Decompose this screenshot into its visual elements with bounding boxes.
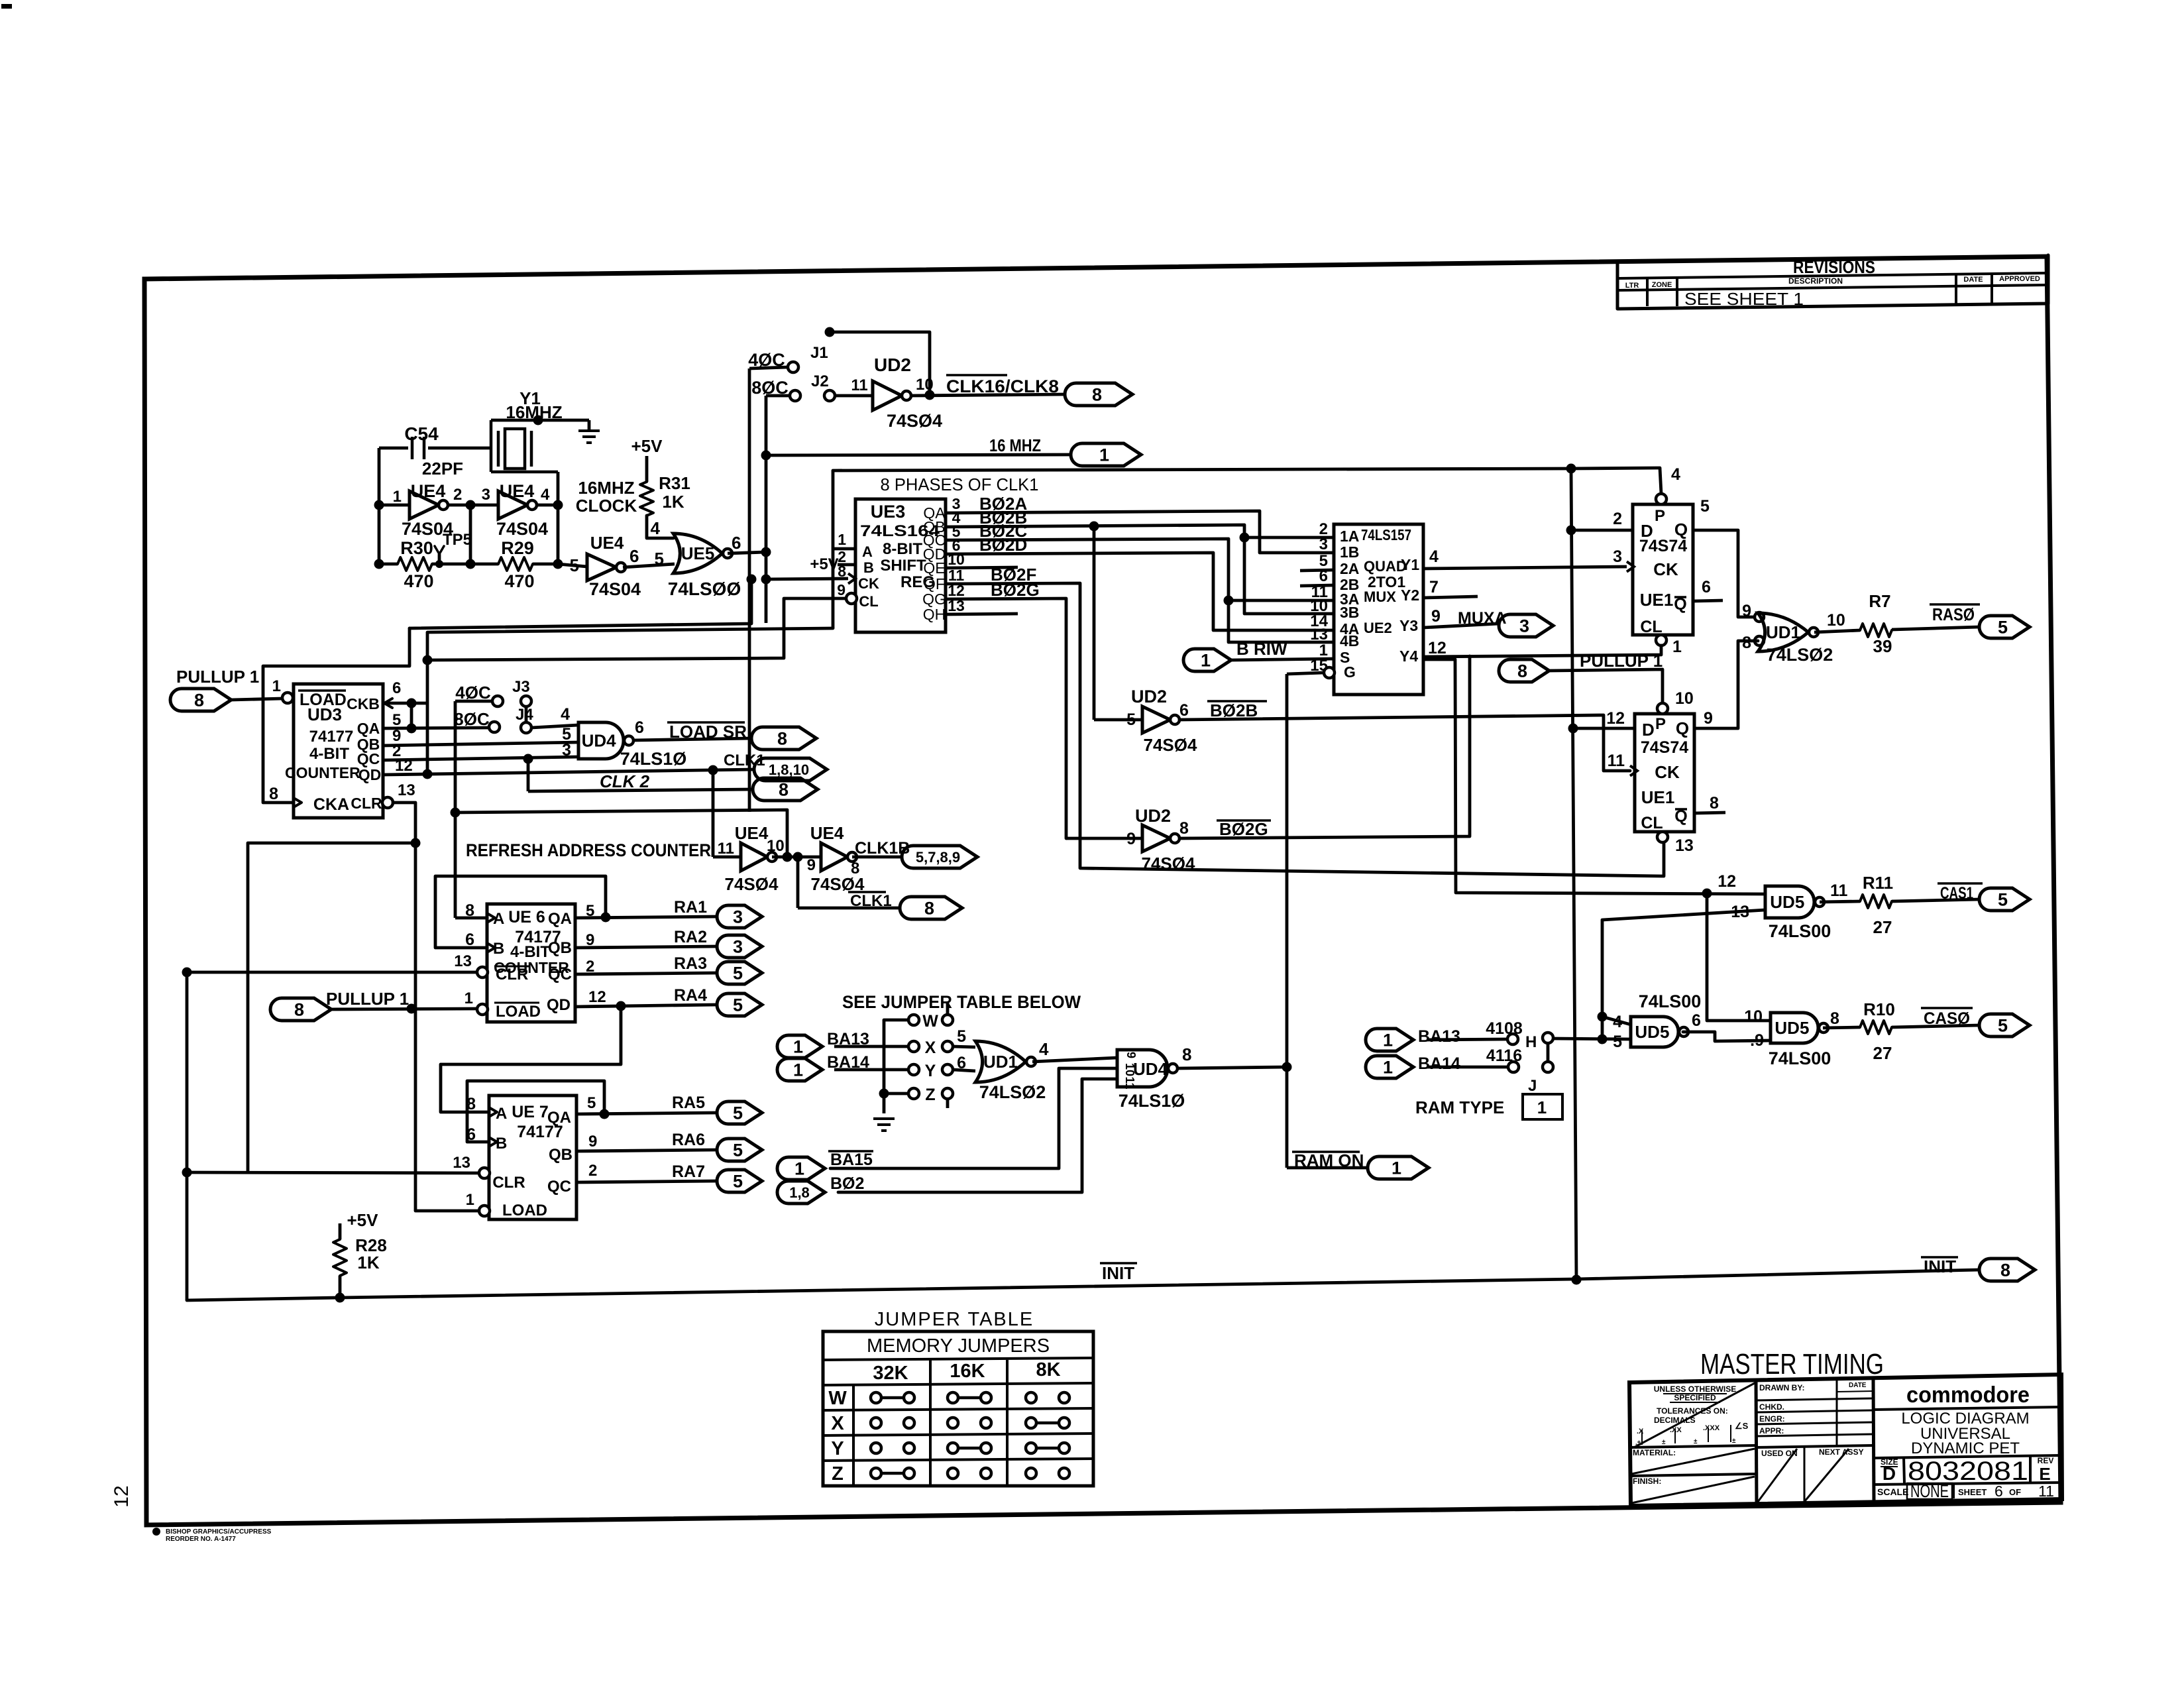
svg-text:PULLUP 1: PULLUP 1 [326,989,409,1009]
svg-text:B: B [863,559,874,576]
wire UE7 CLR input [187,1172,479,1173]
svg-text:FINISH:: FINISH: [1633,1477,1661,1486]
svg-text:P: P [1655,715,1666,733]
svg-text:SEE SHEET 1: SEE SHEET 1 [1684,289,1804,309]
svg-text:UE1: UE1 [1641,787,1675,807]
inverter UD2 pins 11-10 74S04 [824,355,1065,431]
svg-text:6: 6 [1994,1483,2003,1500]
svg-text:39: 39 [1873,636,1892,656]
svg-text:2: 2 [1613,510,1622,528]
svg-text:CLR: CLR [492,1174,525,1192]
svg-text:Z: Z [925,1086,935,1104]
svg-text:1: 1 [393,488,402,506]
svg-text:RA5: RA5 [672,1094,705,1112]
svg-text:1: 1 [1672,638,1682,656]
wire UD3 QD CLK1 net [383,769,754,775]
svg-text:J3: J3 [512,678,530,696]
flag BA13 input 1 right [1366,1027,1507,1051]
svg-text:74SØ4: 74SØ4 [887,411,942,431]
svg-text:R29: R29 [501,538,534,558]
wire UE7 LOAD input [415,1209,479,1213]
net RA7 flag 5 [576,1181,717,1182]
svg-text:8K: 8K [1036,1359,1060,1380]
svg-text:10: 10 [1675,689,1694,708]
svg-text:3: 3 [733,937,743,957]
svg-text:D: D [1642,720,1655,740]
wire CLR UD3 route [393,803,415,843]
svg-text:5: 5 [733,964,743,983]
svg-text:QC: QC [547,1178,571,1196]
wire B02B branch down [1093,526,1096,720]
svg-text:J4: J4 [516,706,533,724]
svg-text:D: D [1883,1463,1896,1484]
svg-text:SHEET: SHEET [1958,1487,1987,1497]
svg-text:RA6: RA6 [672,1131,705,1149]
svg-text:P: P [1655,507,1665,525]
svg-text:9: 9 [807,856,816,874]
svg-text:.±: .± [1635,1439,1641,1447]
svg-text:R11: R11 [1863,873,1893,893]
wire Y4 to UD5 pin 12 [1423,639,1765,899]
svg-text:BISHOP GRAPHICS/ACCUPRESS: BISHOP GRAPHICS/ACCUPRESS [166,1528,272,1536]
svg-text:APPROVED: APPROVED [1999,275,2040,283]
svg-text:4B: 4B [1340,632,1359,649]
wire UE6 carry QA to B [601,913,611,923]
svg-text:Y: Y [831,1438,844,1459]
svg-text:470: 470 [504,571,534,591]
svg-text:CASØ: CASØ [1924,1009,1970,1028]
svg-text:1: 1 [1392,1158,1401,1178]
svg-text:8: 8 [1830,1009,1839,1028]
svg-text:LOAD: LOAD [496,1003,541,1021]
svg-text:UE4: UE4 [810,823,844,843]
svg-text:J2: J2 [811,372,829,390]
svg-text:74S04: 74S04 [589,579,641,599]
svg-text:74LSØ2: 74LSØ2 [979,1082,1046,1102]
svg-text:Y2: Y2 [1401,587,1419,604]
jumper J 4116 [1486,1046,1553,1095]
net RA6 flag 5 [576,1150,717,1151]
svg-text:5: 5 [1998,1016,2008,1036]
wire UE1a Q to UD1 pin 9 [1693,530,1758,617]
svg-text:UD5: UD5 [1774,1018,1809,1038]
wire UE6 CLR input [187,971,477,974]
svg-text:8 PHASES OF CLK1: 8 PHASES OF CLK1 [881,475,1039,494]
wire UE1a CL rail [1425,646,1661,657]
svg-text:5: 5 [392,711,401,729]
wire CKA 16MHZ net upper [409,579,751,628]
svg-text:74LS00: 74LS00 [1639,991,1702,1011]
svg-text:BA15: BA15 [830,1151,873,1169]
svg-text:ZONE: ZONE [1652,281,1672,289]
nand gate UD5 pins 10,9,8 74LS00 [1744,1007,1839,1068]
svg-text:1A: 1A [1340,528,1359,545]
svg-text:NONE: NONE [1910,1481,1949,1501]
svg-text:REFRESH ADDRESS COUNTER: REFRESH ADDRESS COUNTER [466,840,711,860]
svg-text:10: 10 [1744,1007,1763,1026]
svg-text:RASØ: RASØ [1932,604,1975,624]
svg-text:3: 3 [733,907,743,927]
svg-text:11: 11 [2038,1483,2054,1500]
svg-text:QD: QD [547,996,571,1014]
stub QE [946,567,1018,568]
svg-text:SPECIFIED: SPECIFIED [1674,1393,1716,1402]
svg-text:PULLUP 1: PULLUP 1 [176,667,259,687]
svg-text:TP5: TP5 [443,531,472,549]
flag BA14 input 1 [777,1053,908,1081]
svg-text:74LS00: 74LS00 [1769,921,1831,941]
svg-text:8: 8 [924,899,934,919]
net CLK1-bar flag 8 [798,857,962,919]
counter UD3 74177 4-BIT [269,677,415,818]
inverter UD2 pins 5-6 74S04 [1094,687,1197,755]
svg-text:MUX: MUX [1364,589,1396,605]
svg-text:74S04: 74S04 [496,519,548,539]
svg-text:74SØ4: 74SØ4 [1142,854,1195,873]
svg-text:J1: J1 [810,344,828,362]
svg-text:6: 6 [1702,578,1711,596]
svg-text:8: 8 [294,1000,304,1020]
svg-text:74LS157: 74LS157 [1361,526,1411,543]
svg-text:5: 5 [1998,890,2008,910]
svg-text:11: 11 [1830,881,1848,900]
svg-text:6: 6 [635,718,644,737]
net INIT wire [187,1270,1979,1300]
svg-text:CLR: CLR [496,966,528,983]
svg-text:2: 2 [453,486,462,504]
svg-text:UE4: UE4 [735,823,769,843]
svg-text:1B: 1B [1340,543,1359,561]
nand gate UD4 pins 4,5,3 74LS10 [561,705,686,769]
net 16 MHZ flag 1 [761,435,1142,466]
svg-text:BØ2G: BØ2G [1219,819,1268,839]
svg-text:RA2: RA2 [674,928,707,946]
wire UD1 out to UD4 pin 9 [1032,1058,1117,1062]
wire UE3 CK input [761,575,771,585]
vertical 40C to UE6 A [454,701,457,918]
svg-text:LOAD SR: LOAD SR [669,722,747,742]
nor gate UD1 74LS02 left [975,1039,1049,1102]
svg-text:4: 4 [1039,1039,1049,1059]
svg-text:∠S: ∠S [1735,1421,1749,1431]
svg-text:74S74: 74S74 [1639,537,1687,555]
counter UE7 74177 [453,1094,597,1219]
flag PULLUP 1 input 8 right [1499,651,1663,703]
flag B02 input 1,8 [777,1079,1117,1204]
net CLK 2 flag 8 [528,771,818,801]
svg-text:QB: QB [548,939,572,957]
wire UE1a D input [1571,529,1633,532]
wire UD3 QA to jumper J4 [383,728,489,728]
svg-text:1: 1 [793,1037,803,1057]
net B02B-bar wire to UE1b CK [1179,701,1637,776]
inverter UE4 pins 9-8 74S04 [807,823,865,894]
svg-text:QH: QH [923,606,946,623]
svg-text:UD2: UD2 [1135,806,1171,826]
svg-text:UE1: UE1 [1640,590,1674,610]
svg-text:R30: R30 [400,538,433,558]
svg-text:13: 13 [1310,626,1328,644]
svg-text:12: 12 [1428,639,1447,657]
svg-text:22PF: 22PF [422,459,463,478]
svg-text:UD2: UD2 [1131,687,1167,706]
svg-text:INIT: INIT [1924,1257,1956,1276]
svg-text:Z: Z [832,1463,844,1485]
wire UE3 A input [833,547,855,551]
stub QH [946,614,1018,614]
resistor R11 27 [1820,873,1893,937]
svg-text:CLOCK: CLOCK [576,496,637,516]
net RA1 flag 3 [575,917,717,918]
svg-text:3: 3 [1519,616,1529,636]
svg-text:UD5: UD5 [1770,892,1804,912]
stub UE1b Qbar [1694,813,1725,813]
flag BA13 input 1 [777,1030,908,1058]
svg-text:CLK1: CLK1 [850,892,892,910]
svg-text:MASTER TIMING: MASTER TIMING [1700,1348,1884,1380]
wire UE6 A input [455,917,487,920]
svg-text:6: 6 [957,1054,966,1072]
jumper Z [884,1086,953,1108]
svg-text:RAM TYPE: RAM TYPE [1415,1097,1504,1117]
svg-text:6: 6 [629,546,639,566]
svg-text:8: 8 [1092,385,1102,405]
svg-text:REORDER NO. A-1477: REORDER NO. A-1477 [166,1536,236,1543]
svg-text:±: ± [1732,1437,1736,1445]
svg-text:12: 12 [111,1485,133,1507]
svg-text:CK: CK [858,575,879,592]
svg-text:9: 9 [1124,1052,1138,1058]
svg-text:H: H [1525,1033,1537,1051]
svg-text:REVISIONS: REVISIONS [1793,257,1875,277]
wire UD4 output to RAM ON net [1177,1067,1287,1068]
svg-text:1: 1 [1099,445,1109,465]
svg-text:MATERIAL:: MATERIAL: [1633,1448,1676,1457]
svg-text:74LS1Ø: 74LS1Ø [620,749,687,769]
wire UE6 QD cascade to UE7 A [616,1001,626,1011]
inverter UE4 pins 3-4 [482,481,550,539]
svg-text:8: 8 [1710,794,1719,813]
svg-text:8: 8 [1179,819,1189,838]
net INIT label mid [1100,1262,1137,1264]
svg-text:CLR: CLR [351,795,382,812]
svg-text:.X: .X [1637,1428,1644,1435]
svg-text:6: 6 [1179,701,1189,720]
flip-flop UE1 74S74 lower [1606,689,1719,855]
svg-text:1: 1 [464,989,473,1007]
wire UE7 carry QA to B [600,1109,610,1119]
svg-text:DYNAMIC PET: DYNAMIC PET [1911,1439,2020,1457]
svg-text:APPR:: APPR: [1759,1426,1784,1435]
svg-text:12: 12 [588,988,606,1006]
net label CLK16/CLK8 and flag 8 [946,375,1132,406]
crystal Y1 16MHZ [491,388,589,472]
svg-text:9: 9 [588,1133,597,1151]
svg-text:4: 4 [1429,547,1439,566]
svg-text:5: 5 [733,995,743,1015]
svg-text:LOAD: LOAD [502,1202,547,1219]
wire UD3 QC to UD4 pin3 and CLK2 [383,757,578,760]
svg-text:1,8: 1,8 [789,1184,810,1201]
svg-text:Y: Y [925,1062,936,1080]
svg-text:13: 13 [398,781,415,799]
nand gate UD5 pins 12,13,11 74LS00 [1718,872,1847,941]
wire UD5b pin4 [1602,1017,1631,1025]
wire UD3 CKB net [383,702,427,705]
vertical wire D net to INIT [1571,469,1576,1280]
svg-text:B RIW: B RIW [1236,639,1287,659]
svg-text:SHIFT: SHIFT [880,557,926,575]
svg-text:CK: CK [1655,762,1680,782]
wire CKA route left [263,628,409,803]
svg-text:UE3: UE3 [871,502,906,522]
svg-text:UE4: UE4 [411,481,446,501]
shift register UE3 74LS164 [837,495,965,632]
jumper W [884,1002,953,1031]
resistor R30 470 [374,538,471,591]
svg-text:CHKD.: CHKD. [1759,1402,1784,1412]
svg-text:DATE: DATE [1963,276,1983,284]
svg-text:5: 5 [733,1103,743,1123]
svg-text:74S74: 74S74 [1641,738,1688,757]
svg-text:11: 11 [1608,752,1625,770]
svg-text:4: 4 [651,518,661,538]
svg-text:27: 27 [1873,1043,1892,1063]
svg-text:6: 6 [732,533,741,553]
nand gate UD4 pins 9,10,11 74LS10 [1117,1044,1191,1111]
svg-text:5: 5 [1998,618,2008,638]
jumper H 4108 [1486,1019,1553,1062]
svg-text:5: 5 [1613,1033,1622,1051]
svg-text:.9: .9 [1750,1031,1764,1050]
jumper Y [908,1054,975,1080]
svg-text:1: 1 [1383,1058,1393,1078]
title block [1629,1375,2062,1506]
svg-text:BØ2: BØ2 [830,1174,864,1193]
net CLK1B flag 5,7,8,9 [852,839,977,868]
vertical wire CLR rail left [186,972,189,1300]
svg-text:±: ± [1694,1438,1698,1445]
resistor R7 39 [1814,591,1892,656]
stub UE2 2B [1300,585,1334,586]
svg-text:ENGR:: ENGR: [1759,1414,1785,1424]
svg-text:470: 470 [404,571,433,591]
wire UE1b Q to UD1 pin 8 [1694,641,1758,728]
svg-text:8: 8 [194,691,204,710]
svg-text:4: 4 [1671,465,1680,484]
sheet border frame [144,256,2061,1525]
svg-text:NEXT ASSY: NEXT ASSY [1819,1447,1864,1457]
svg-text:9: 9 [1704,709,1713,728]
RAM TYPE label and box [1415,1094,1562,1119]
svg-text:11: 11 [851,376,867,394]
flip-flop UE1 74S74 upper [1613,465,1711,656]
svg-text:UD2: UD2 [874,355,911,375]
svg-text:CLK16/CLK8: CLK16/CLK8 [946,376,1059,396]
svg-text:3: 3 [1613,547,1622,566]
svg-text:8: 8 [1742,634,1751,652]
svg-text:74LS00: 74LS00 [1769,1048,1831,1068]
svg-text:8: 8 [1182,1044,1191,1064]
svg-text:1: 1 [1201,651,1211,671]
inverter UE4 pins 5-6 [558,533,641,599]
svg-text:11: 11 [718,840,734,858]
svg-text:UE 7: UE 7 [512,1103,549,1121]
flag PULLUP 1 input 8 mid [270,989,477,1021]
svg-text:74SØ4: 74SØ4 [1144,735,1197,755]
net RAS0 flag 5 [1892,604,2030,638]
svg-text:.XX: .XX [1670,1426,1682,1434]
svg-text:5: 5 [1700,497,1710,516]
svg-text:QD: QD [358,766,382,783]
svg-text:CKB: CKB [347,695,380,712]
jumper J2 80C [751,372,828,401]
svg-text:3: 3 [1319,535,1328,553]
jumper J3 40C [455,678,531,722]
flag BA14 input 1 right [1366,1054,1508,1078]
svg-text:5: 5 [957,1027,966,1046]
svg-text:3: 3 [482,486,490,504]
wire preset rail to D flip-flops [833,468,1660,471]
svg-text:QC: QC [548,966,572,983]
svg-text:Y3: Y3 [1399,617,1418,634]
jumper X [908,1027,975,1057]
svg-text:.XXX: .XXX [1703,1424,1720,1432]
svg-text:1K: 1K [357,1253,379,1272]
svg-text:1: 1 [1537,1097,1547,1117]
svg-text:QC: QC [357,750,380,767]
svg-text:32K: 32K [873,1363,908,1384]
svg-text:UE4: UE4 [590,533,624,553]
svg-text:5: 5 [1126,710,1136,729]
svg-text:BA13: BA13 [1418,1027,1460,1046]
svg-text:7: 7 [1429,578,1439,596]
wire inverter2 output [537,504,558,507]
svg-text:4-BIT: 4-BIT [510,943,550,961]
inverter UE4 pins 11-10 74S04 [718,823,785,894]
net RAM ON flag 1 [1287,1151,1429,1179]
svg-text:DRAWN BY:: DRAWN BY: [1759,1383,1804,1392]
inverter UE4 pins 1-2 [379,481,462,539]
jumper table MEMORY JUMPERS [823,1331,1093,1486]
nor gate UD1 74LS02 [1742,602,1845,665]
wire refresh inverters link [772,856,821,859]
svg-text:4-BIT: 4-BIT [309,745,349,763]
svg-text:JUMPER TABLE: JUMPER TABLE [875,1309,1034,1330]
net CAS1 flag 5 [1892,883,2030,911]
svg-text:BØ2G: BØ2G [991,580,1040,600]
svg-text:UD5: UD5 [1635,1022,1669,1042]
svg-text:COUNTER: COUNTER [285,764,360,781]
nand gate UE5 74LS00 [623,518,741,599]
svg-text:1,8,10: 1,8,10 [769,761,809,778]
svg-text:R10: R10 [1863,999,1895,1019]
wire Y4 branch to UD5c pin10 [1707,893,1771,1021]
wire UE5 output 16MHZ node [728,552,766,553]
jumper J4 80C [454,706,578,733]
svg-text:OF: OF [2009,1487,2021,1497]
wire inverter1 to inverter2 [448,504,498,507]
svg-text:16MHZ: 16MHZ [578,478,634,498]
svg-text:CL: CL [1640,618,1662,636]
wire osc left rail [378,448,381,564]
wire UD3 QB to UD4 pin5 [383,742,578,746]
flag BA15 input 1 [777,1068,1117,1180]
svg-text:6: 6 [392,679,401,697]
svg-text:QA: QA [548,910,572,928]
net RA4 flag 5 [575,1005,717,1007]
svg-text:1K: 1K [662,492,684,512]
